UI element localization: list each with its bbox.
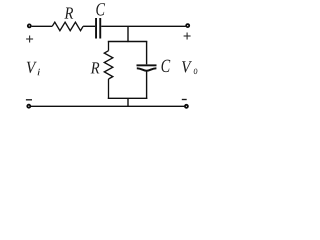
- wire: bottom rail: [31, 105, 185, 107]
- terminal TL (input +): [28, 24, 31, 27]
- terminal TR (output +): [186, 24, 189, 27]
- label C (series capacitor): [96, 3, 105, 15]
- resistor R (shunt, vertical): top lead: [108, 42, 110, 51]
- capacitor C (shunt, vertical): top lead: [146, 42, 148, 65]
- plus sign (input): [26, 36, 33, 43]
- capacitor C (series): left plate: [95, 18, 97, 39]
- wire top-left: terminal to R: [32, 25, 53, 27]
- label C (shunt capacitor): [161, 60, 170, 72]
- capacitor C (shunt): bottom lead: [146, 71, 148, 99]
- resistor R (shunt): bottom lead: [108, 79, 110, 99]
- minus sign (input): [26, 99, 32, 101]
- wire: parallel box top bar: [108, 41, 148, 43]
- wire: bottom stub from box down to bottom rail: [127, 98, 129, 106]
- wire: R to C: [83, 25, 95, 27]
- resistor R (series, horizontal zigzag): [52, 22, 83, 31]
- terminal BL (input -): [27, 105, 30, 108]
- terminal BR (output -): [185, 105, 188, 108]
- wire: parallel box bottom bar: [108, 97, 148, 99]
- capacitor C (shunt): curved bottom plate: [137, 68, 157, 71]
- label Vi: [27, 62, 40, 76]
- resistor R (shunt) zigzag: [104, 51, 113, 79]
- label Vo: [182, 61, 197, 74]
- plus sign (output): [184, 33, 191, 40]
- node A: junction stub from top wire down to parallel box: [127, 26, 129, 42]
- minus sign (output): [182, 99, 187, 101]
- capacitor C (series): right plate: [99, 18, 101, 39]
- capacitor C (shunt): straight top plate: [137, 64, 157, 66]
- label R (series resistor): [64, 8, 73, 19]
- label R (shunt resistor): [91, 62, 100, 73]
- wire: C to output terminal (top wire): [101, 25, 185, 27]
